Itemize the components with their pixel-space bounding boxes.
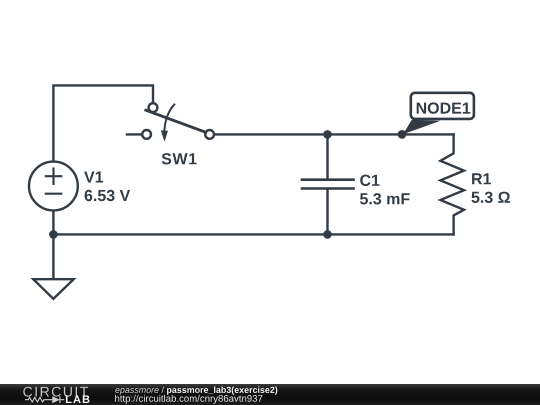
switch SW1 right throw terminal xyxy=(205,130,214,139)
V1 plus sign xyxy=(46,169,61,184)
junction dot C1 bottom xyxy=(323,230,332,239)
capacitor C1 bottom lead xyxy=(326,189,328,235)
footer author epassmore xyxy=(115,387,164,395)
value 6.53 V xyxy=(85,190,131,201)
V1 minus sign xyxy=(46,193,61,195)
wire V1 bottom to ground xyxy=(52,211,54,279)
ground symbol xyxy=(33,279,73,299)
junction dot C1 top xyxy=(323,130,332,139)
label C1 xyxy=(360,175,379,186)
logo diode cathode bar and lead-out xyxy=(59,396,61,403)
NODE1 callout box xyxy=(411,93,474,119)
switch SW1 common terminal xyxy=(149,103,158,112)
voltage source V1 body xyxy=(29,162,78,211)
footer bar background xyxy=(0,384,540,405)
capacitor C1 top lead xyxy=(326,134,328,179)
footer url line2 xyxy=(115,395,262,404)
logo word CIRCUIT xyxy=(23,387,88,397)
NODE1 callout tail xyxy=(403,120,441,135)
label R1 xyxy=(472,173,491,184)
resistor R1 zigzag xyxy=(440,134,464,234)
wire top net SW1 to R1 xyxy=(214,133,453,135)
label NODE1 xyxy=(417,102,471,113)
wire bottom net xyxy=(53,233,453,235)
logo diode triangle xyxy=(52,396,59,403)
junction dot V1 bottom xyxy=(49,230,58,239)
wire top-left loop V1 top to SW1 common xyxy=(53,85,153,160)
capacitor C1 bottom plate xyxy=(302,187,354,190)
label V1 xyxy=(84,172,103,183)
switch SW1 left throw terminal xyxy=(142,130,151,139)
logo word LAB xyxy=(66,395,90,403)
logo resistor squiggle lead-in xyxy=(25,396,64,403)
wire SW1 left throw stub xyxy=(127,133,142,135)
switch SW1 blade xyxy=(146,110,206,132)
label SW1 xyxy=(162,153,197,164)
footer project passmore_lab3(exercise2) xyxy=(167,387,277,395)
capacitor C1 top plate xyxy=(302,178,354,181)
value 5.3 ohm xyxy=(472,192,510,203)
switch SW1 motion arrow arc xyxy=(164,105,174,132)
value 5.3 mF xyxy=(360,193,410,204)
switch SW1 arrowhead xyxy=(161,130,168,141)
node NODE1 junction dot xyxy=(398,130,407,139)
